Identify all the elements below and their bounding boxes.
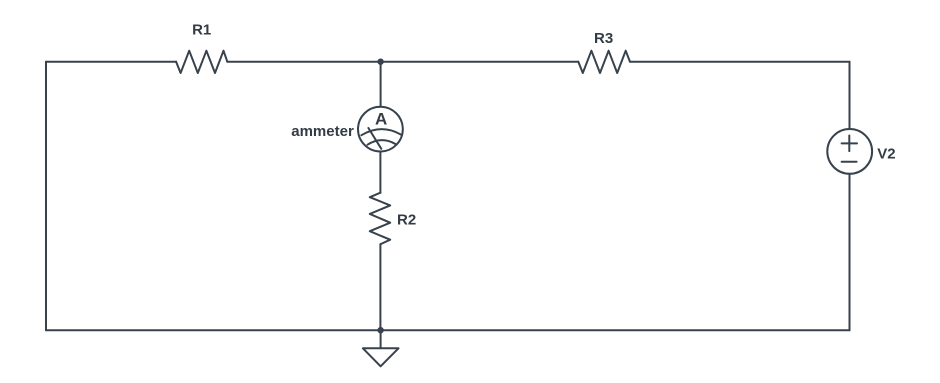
wire ammeter to R2 [379, 152, 381, 193]
resistor R2 [370, 193, 390, 245]
wire R3 to top-right corner [630, 61, 850, 63]
wire left side [45, 62, 47, 331]
wire right side lower [849, 174, 851, 330]
wire top-left segment [46, 61, 176, 63]
wire node A to ammeter [380, 62, 382, 107]
svg-text:V2: V2 [877, 145, 895, 162]
ammeter U1 [358, 107, 403, 152]
ground stem [380, 330, 382, 348]
svg-text:A: A [375, 109, 387, 128]
svg-text:ammeter: ammeter [291, 123, 354, 140]
svg-text:R1: R1 [192, 22, 211, 39]
node A junction dot [377, 59, 383, 65]
svg-text:R3: R3 [594, 30, 613, 47]
wire R2 to bottom node [379, 244, 381, 330]
wire bottom [46, 329, 850, 331]
wire R1 to node A [227, 61, 380, 63]
ground [363, 348, 399, 366]
svg-text:R2: R2 [397, 211, 416, 228]
resistor R3 [578, 51, 630, 73]
bottom node junction dot [377, 327, 383, 333]
resistor R1 [176, 51, 227, 73]
wire node A to R3 [381, 61, 579, 63]
voltage source V2 [827, 129, 872, 174]
wire right side upper [849, 62, 851, 129]
